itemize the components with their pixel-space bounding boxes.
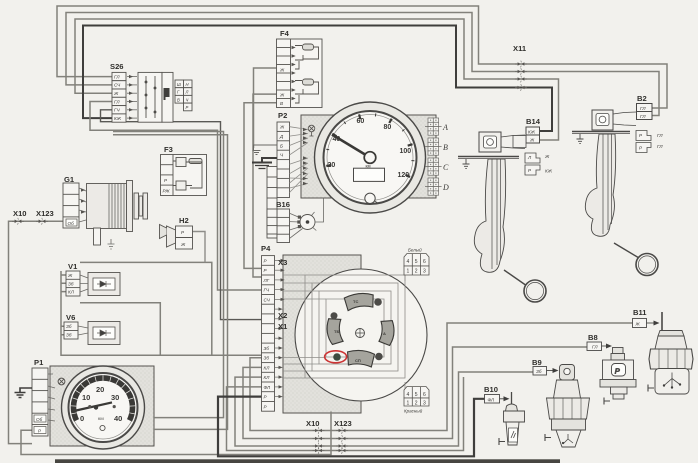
svg-text:Об: Об (36, 417, 43, 422)
svg-text:B2: B2 (637, 94, 647, 103)
svg-text:ГЛ: ГЛ (114, 99, 120, 104)
svg-text:4: 4 (407, 392, 410, 398)
svg-text:Л: Л (185, 90, 189, 95)
svg-text:30: 30 (111, 393, 119, 402)
svg-text:H2: H2 (179, 216, 189, 225)
svg-text:Б: Б (280, 143, 283, 148)
svg-text:V6: V6 (66, 313, 75, 322)
svg-text:КЖ: КЖ (528, 130, 536, 135)
svg-text:СЧ: СЧ (264, 297, 271, 302)
svg-text:КЛ: КЛ (264, 365, 271, 370)
svg-text:ГЛ: ГЛ (640, 114, 646, 119)
svg-text:5: 5 (415, 392, 418, 398)
svg-text:X123: X123 (36, 209, 54, 218)
svg-text:2: 2 (415, 269, 418, 275)
svg-text:Зб: Зб (264, 356, 270, 361)
svg-text:B11: B11 (633, 308, 647, 317)
svg-text:КЛ: КЛ (264, 375, 271, 380)
svg-text:ТС: ТС (353, 299, 358, 304)
svg-text:В: В (177, 97, 180, 102)
svg-text:км: км (366, 164, 371, 169)
svg-text:Зб: Зб (66, 324, 72, 329)
svg-text:P4: P4 (261, 244, 271, 253)
svg-text:1: 1 (407, 401, 410, 407)
svg-text:5: 5 (415, 259, 418, 265)
svg-text:Ж: Ж (113, 91, 119, 96)
svg-text:X10: X10 (306, 419, 320, 428)
svg-text:В: В (280, 101, 283, 106)
svg-text:ГЛ: ГЛ (592, 345, 598, 350)
svg-text:4: 4 (407, 259, 410, 265)
svg-text:Ж: Ж (180, 242, 186, 247)
svg-text:КЖ: КЖ (114, 116, 122, 121)
svg-text:ГЛ: ГЛ (114, 74, 120, 79)
svg-text:20: 20 (96, 385, 104, 394)
svg-text:G1: G1 (64, 175, 75, 184)
svg-text:Р: Р (186, 105, 189, 110)
svg-text:X11: X11 (513, 44, 527, 53)
svg-text:P1: P1 (34, 358, 44, 367)
svg-text:X1: X1 (278, 322, 288, 331)
svg-text:Ж: Ж (635, 322, 641, 327)
svg-text:F3: F3 (164, 145, 173, 154)
svg-text:ГЧ: ГЧ (264, 288, 270, 293)
svg-text:A: A (442, 123, 448, 132)
svg-text:Зб: Зб (536, 369, 542, 374)
svg-text:3: 3 (423, 269, 426, 275)
svg-text:B8: B8 (588, 333, 598, 342)
svg-text:Ж: Ж (67, 273, 73, 278)
svg-text:КЖ: КЖ (545, 169, 553, 174)
svg-text:А: А (383, 331, 386, 336)
svg-text:Белый: Белый (408, 247, 422, 253)
svg-text:ТБ: ТБ (334, 329, 339, 334)
svg-text:Ж: Ж (279, 68, 285, 73)
svg-text:F4: F4 (280, 29, 290, 38)
svg-text:ГЛ: ГЛ (657, 144, 663, 149)
svg-text:100: 100 (400, 148, 412, 155)
svg-text:Зб: Зб (66, 333, 72, 338)
svg-text:Ж: Ж (544, 154, 550, 159)
svg-text:6: 6 (423, 392, 426, 398)
svg-text:X2: X2 (278, 311, 287, 320)
svg-text:40: 40 (114, 414, 122, 423)
svg-text:ГЛ: ГЛ (640, 106, 646, 111)
svg-text:Ж: Ж (279, 93, 285, 98)
svg-text:Ж: Ж (529, 138, 535, 143)
svg-text:X3: X3 (278, 258, 287, 267)
svg-text:B10: B10 (484, 385, 498, 394)
svg-text:ГЛ: ГЛ (657, 133, 663, 138)
svg-text:Зб: Зб (264, 346, 270, 351)
svg-text:60: 60 (357, 118, 365, 125)
svg-text:10: 10 (82, 393, 90, 402)
svg-text:B9: B9 (532, 358, 542, 367)
svg-text:D: D (442, 183, 449, 192)
svg-text:C: C (443, 163, 449, 172)
svg-text:ЛГ: ЛГ (263, 278, 270, 283)
svg-text:ГЧ: ГЧ (114, 108, 120, 113)
svg-text:1: 1 (407, 269, 410, 275)
svg-text:КЛ: КЛ (68, 290, 75, 295)
svg-text:120: 120 (398, 172, 410, 179)
svg-text:ФЛ: ФЛ (488, 398, 495, 403)
svg-text:3: 3 (423, 401, 426, 407)
svg-text:6: 6 (423, 259, 426, 265)
svg-text:Ж: Ж (279, 125, 285, 130)
svg-text:40: 40 (333, 136, 341, 143)
svg-text:X10: X10 (13, 209, 27, 218)
svg-text:P2: P2 (278, 111, 287, 120)
svg-text:Ш: Ш (177, 82, 181, 87)
svg-text:S26: S26 (110, 62, 124, 71)
svg-text:СП: СП (355, 358, 361, 363)
svg-text:КМ: КМ (98, 416, 104, 421)
svg-text:2: 2 (415, 401, 418, 407)
svg-text:ФЛ: ФЛ (264, 385, 271, 390)
svg-text:B16: B16 (276, 200, 290, 209)
svg-text:80: 80 (384, 124, 392, 131)
svg-text:20: 20 (328, 162, 336, 169)
svg-text:B14: B14 (526, 117, 541, 126)
svg-text:Зб: Зб (68, 281, 74, 286)
svg-text:0: 0 (80, 414, 84, 423)
svg-text:Ч: Ч (186, 97, 189, 102)
svg-text:P: P (615, 367, 620, 376)
svg-text:РЖ: РЖ (163, 189, 171, 194)
svg-text:V1: V1 (68, 262, 78, 271)
svg-text:СЧ: СЧ (114, 83, 121, 88)
svg-text:X123: X123 (334, 419, 352, 428)
svg-text:B: B (443, 143, 448, 152)
svg-text:Красный: Красный (404, 408, 423, 414)
svg-text:Об: Об (68, 221, 75, 226)
